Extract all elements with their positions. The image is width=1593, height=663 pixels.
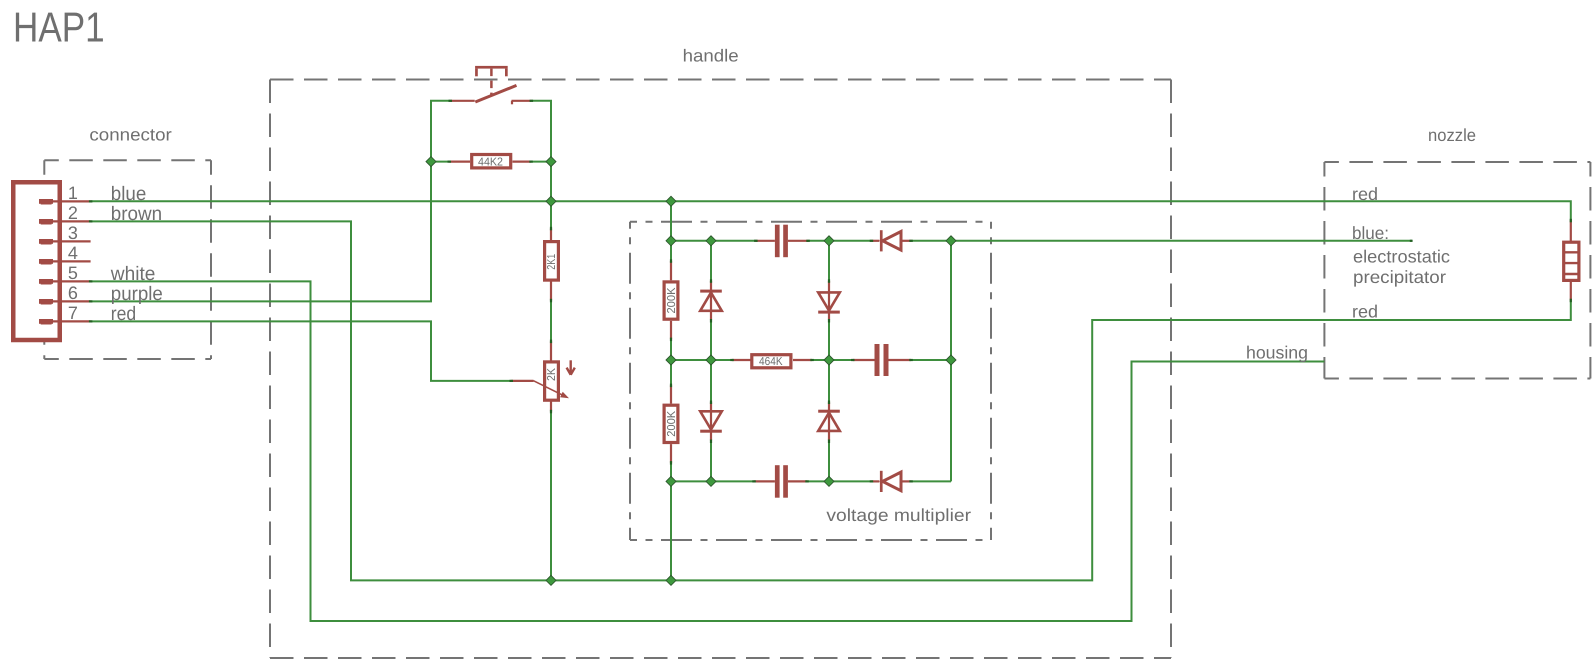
tick C2 right (909, 359, 913, 361)
wire left column bottom segment (670, 463, 672, 581)
junction top row col4 (824, 236, 834, 246)
wire top row / blue output (671, 240, 756, 242)
tick 200K-2 bottom (670, 461, 672, 465)
wire 2K1 top stub (550, 201, 552, 228)
pin 6 lead (39, 299, 53, 304)
tick C3 right (805, 480, 809, 482)
svg-text:connector: connector (89, 125, 172, 145)
tick C1 left (754, 240, 758, 242)
svg-text:purple: purple (111, 283, 163, 305)
tick 2K1 top (550, 227, 552, 231)
resistor 200K lower (664, 385, 678, 463)
svg-text:red: red (111, 303, 136, 325)
wire 2K1 to trimmer (550, 301, 552, 342)
switch left contact (450, 100, 475, 102)
tick C3 left (752, 480, 756, 482)
svg-text:6: 6 (68, 283, 78, 303)
tick trimmer wiper (510, 380, 514, 382)
junction bottom row col4 (824, 476, 834, 486)
svg-text:2: 2 (68, 203, 78, 223)
tick pin6 (89, 300, 93, 302)
svg-text:7: 7 (68, 303, 78, 323)
tick D1 top (710, 279, 712, 283)
tick trimmer bottom (550, 410, 552, 414)
wire net purple pin6 up to switch (91, 101, 451, 302)
tick D1 bottom (710, 319, 712, 323)
trimmer adjust arrow (570, 360, 572, 373)
pin 4 lead (39, 259, 53, 264)
tick D6 left (870, 480, 874, 482)
tick C2 left (851, 359, 855, 361)
svg-text:blue: blue (111, 183, 147, 205)
tick pin5 (89, 280, 93, 282)
svg-text:2K: 2K (546, 368, 558, 381)
svg-text:200K: 200K (666, 410, 678, 436)
svg-text:red: red (1352, 184, 1378, 204)
tick switch right (530, 100, 534, 102)
svg-text:2K1: 2K1 (546, 254, 558, 270)
wire trimmer bottom down to bus (550, 412, 552, 581)
svg-text:4: 4 (68, 243, 78, 263)
wire diode column4 segments (828, 241, 830, 281)
switch cap right stub (505, 69, 508, 77)
nozzle box (1324, 162, 1590, 379)
junction switch left (426, 157, 436, 167)
svg-text:blue:: blue: (1352, 223, 1389, 243)
junction bus col1 (666, 575, 676, 585)
wire bottom row (671, 480, 754, 482)
junction mid row col1 (666, 355, 676, 365)
wire middle row (671, 359, 732, 361)
tick switch left (449, 100, 453, 102)
tick pin2 (89, 220, 93, 222)
resistor 2K1 (545, 229, 559, 301)
svg-text:nozzle: nozzle (1428, 125, 1476, 145)
tick C1 right (806, 240, 810, 242)
wire net red pin7 to trimmer wiper (91, 321, 512, 381)
switch right contact (512, 100, 532, 102)
junction main row col1 (666, 196, 676, 206)
diode D4 col4 lower cathode-up (818, 402, 840, 440)
trimmer wiper diagonal (533, 381, 566, 397)
junction bottom row col2 (706, 476, 716, 486)
pin 2 lead (39, 219, 53, 224)
resistor 200K upper (664, 261, 678, 339)
svg-text:1: 1 (68, 183, 78, 203)
diode D6 bottom row cathode-left (871, 471, 911, 492)
junction switch right (546, 157, 556, 167)
svg-text:3: 3 (68, 223, 78, 243)
tick pin7 (89, 320, 93, 322)
wire diode column2 segments (710, 241, 712, 281)
tick D4 bottom (828, 440, 830, 444)
svg-text:voltage multiplier: voltage multiplier (826, 505, 971, 525)
tick D5 left (870, 240, 874, 242)
svg-text:464K: 464K (759, 356, 783, 368)
switch lever (475, 85, 516, 102)
trimmer wiper lead (511, 380, 533, 382)
junction top row col2 (706, 236, 716, 246)
tick 200K-1 bottom (670, 338, 672, 342)
handle box (270, 80, 1171, 659)
tick 200K-1 top (670, 259, 672, 263)
resistor 464K (732, 355, 812, 368)
tick D2 bottom (710, 440, 712, 444)
diode D2 col2 lower cathode-down (700, 402, 722, 440)
junction top row col1 (666, 236, 676, 246)
svg-text:200K: 200K (666, 287, 678, 313)
pin 1 lead (39, 199, 53, 204)
tick D6 right (909, 480, 913, 482)
capacitor C3 bottom row (754, 465, 807, 498)
diode D5 top row cathode-left (871, 230, 911, 251)
wire 44K2 right stub (531, 161, 551, 163)
tick 44K2 right (529, 161, 533, 163)
svg-text:handle: handle (683, 46, 739, 66)
svg-text:5: 5 (68, 263, 78, 283)
connector J1 body (13, 182, 60, 340)
capacitor C1 top row (756, 225, 808, 258)
wire net white pin5 to housing (91, 281, 1325, 621)
svg-text:HAP1: HAP1 (13, 4, 105, 51)
junction top row col5 (946, 236, 956, 246)
svg-text:precipitator: precipitator (1353, 267, 1446, 287)
wire 44K2 left stub (431, 161, 449, 163)
junction mid row col5 (946, 355, 956, 365)
tick 464K right (810, 359, 814, 361)
pin 7 lead (39, 319, 53, 324)
tick D2 top (710, 401, 712, 405)
svg-text:brown: brown (111, 203, 162, 225)
svg-text:electrostatic: electrostatic (1353, 247, 1450, 267)
pin 3 lead (39, 239, 53, 244)
junction bottom row col1 (666, 476, 676, 486)
wire net brown pin2 to bottom bus (91, 221, 1571, 580)
junction mid row col2 (706, 355, 716, 365)
diode D3 col4 upper cathode-down (818, 281, 840, 320)
tick EP top (1570, 219, 1572, 223)
junction bus trimmer (546, 575, 556, 585)
svg-text:housing: housing (1246, 343, 1308, 363)
wire net blue pin1 main horizontal (91, 201, 1571, 220)
wire multiplier left column (670, 201, 672, 261)
tick 200K-2 top (670, 384, 672, 388)
tick EP bottom (1570, 299, 1572, 303)
voltage multiplier box (630, 222, 991, 540)
svg-text:44K2: 44K2 (478, 156, 503, 168)
junction main row 2K1 (546, 196, 556, 206)
svg-text:white: white (110, 263, 156, 285)
capacitor C2 middle row (853, 344, 911, 376)
switch cap left stub (475, 69, 478, 77)
trimmer 2K (511, 341, 575, 411)
wire switch right side down (531, 101, 551, 202)
electrostatic precipitator element (1563, 221, 1580, 301)
pin connection ticks (89, 100, 1572, 483)
switch right contact tick (511, 101, 513, 105)
tick 464K left (730, 359, 734, 361)
tick D4 top (828, 401, 830, 405)
wire left column mid segment (670, 339, 672, 385)
switch cap bar (475, 66, 508, 69)
junction dots (426, 157, 956, 586)
wire multiplier right column (950, 241, 952, 482)
tick 44K2 left (448, 161, 452, 163)
switch S1 (450, 66, 531, 104)
tick trimmer top (550, 340, 552, 344)
svg-text:red: red (1352, 301, 1378, 321)
tick D3 top (828, 279, 830, 283)
tick pin1 (89, 200, 93, 202)
junction mid row col4 (824, 355, 834, 365)
tick 2K1 bottom (550, 299, 552, 303)
connector box (44, 160, 211, 359)
pin 5 lead (39, 279, 53, 284)
switch stem dashed (490, 69, 493, 97)
trimmer wiper arrowhead (560, 392, 569, 399)
tick D5 right (909, 240, 913, 242)
blue wire end tick (1410, 240, 1413, 242)
diode D1 col2 upper cathode-up (700, 281, 722, 320)
resistor 44K2 (449, 155, 531, 169)
tick D3 bottom (828, 319, 830, 323)
